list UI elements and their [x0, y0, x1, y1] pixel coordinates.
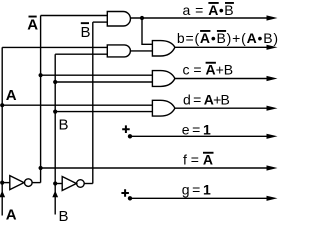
- node A junction at OR-d tap: [0, 103, 4, 107]
- arrow e: [267, 134, 278, 139]
- node B junction at OR-c tap: [53, 80, 57, 84]
- node Abar junction at OR-c tap: [39, 73, 43, 77]
- wire Bbar to AND1 input: [93, 21, 108, 23]
- wire Abar bus vertical: [40, 16, 42, 183]
- svg-text:c = A+B: c = A+B: [183, 62, 234, 78]
- plus symbol for g: [121, 189, 128, 197]
- wire AND2 output to OR-b: [130, 50, 152, 52]
- arrow a: [267, 15, 278, 20]
- arrow d: [267, 106, 278, 111]
- wire g: [130, 197, 268, 199]
- svg-text:b=(A•B)+(A•B): b=(A•B)+(A•B): [177, 30, 279, 46]
- label b=(Abar.Bbar)+(A.B): [177, 30, 279, 46]
- wire inverter2 output riser: [84, 183, 93, 185]
- label c = Abar+B: [183, 62, 234, 78]
- input arrow A: [0, 191, 5, 198]
- label f = Abar: [183, 152, 214, 168]
- wire A to AND2 input: [2, 46, 107, 48]
- wire inverter1 output riser: [32, 182, 41, 184]
- wire B to AND2 input: [55, 53, 107, 55]
- node Abar junction at f tap: [39, 166, 43, 170]
- svg-text:B: B: [59, 208, 69, 222]
- wire A bus vertical: [1, 47, 3, 215]
- wire Abar to OR-c input: [41, 74, 153, 76]
- wire OR-d output to arrow d: [175, 107, 268, 109]
- wire OR-c output to arrow c: [175, 78, 268, 80]
- wire e: [130, 135, 268, 137]
- label Abar input: [27, 16, 38, 34]
- OR gate U3 (b): [152, 41, 175, 56]
- plus symbol for e: [122, 125, 130, 133]
- node junction AND1 output: [140, 16, 144, 20]
- input arrow B: [52, 191, 58, 198]
- inverter Q1 (A to Abar): [2, 182, 10, 184]
- wire Abar to AND1 input: [41, 15, 108, 17]
- wire A to OR-d input: [2, 104, 152, 106]
- svg-text:f = A: f = A: [183, 152, 213, 168]
- svg-text:A: A: [6, 207, 17, 223]
- wire AND1 output down to OR-b: [142, 18, 152, 44]
- svg-text:A: A: [27, 17, 38, 34]
- node B junction at OR-d tap: [53, 110, 57, 114]
- inverter Q2 (B to Bbar): [55, 183, 62, 185]
- OR gate U5 (d): [152, 100, 175, 116]
- wire B bus vertical: [54, 54, 56, 214]
- wire B to OR-d input: [55, 111, 152, 113]
- wire f from Abar bus: [41, 167, 268, 169]
- AND gate U2 (A.B): [107, 45, 130, 57]
- wire Bbar bus vertical: [92, 22, 94, 183]
- svg-text:e = 1: e = 1: [182, 122, 211, 138]
- svg-text:B: B: [81, 24, 91, 41]
- arrow f: [267, 165, 278, 170]
- wire OR-b output to arrow b: [175, 46, 268, 48]
- svg-text:B: B: [59, 117, 69, 134]
- OR gate U4 (c): [152, 71, 175, 87]
- AND gate U1 (a = Abar.Bbar): [107, 12, 130, 27]
- node e source: [128, 134, 132, 138]
- svg-text:A: A: [6, 87, 17, 104]
- wire AND1 output to arrow a: [131, 17, 269, 19]
- label a = Abar.Bbar: [183, 2, 235, 18]
- svg-text:a = A•B: a = A•B: [183, 2, 235, 18]
- node B junction at inverter input: [53, 181, 57, 185]
- node g source: [128, 196, 132, 200]
- label Bbar input: [81, 22, 91, 41]
- svg-text:d = A+B: d = A+B: [183, 92, 230, 108]
- arrow b: [267, 45, 278, 50]
- wire B to OR-c input: [55, 81, 152, 83]
- node A junction at inverter input: [0, 181, 4, 185]
- arrow g: [267, 196, 278, 201]
- svg-text:g = 1: g = 1: [182, 182, 211, 198]
- arrow c: [267, 76, 278, 81]
